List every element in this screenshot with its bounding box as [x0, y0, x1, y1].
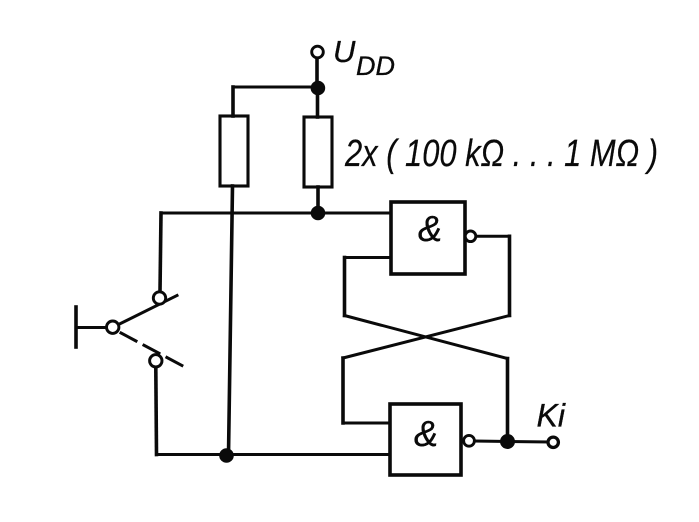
svg-text:&: & — [418, 208, 442, 249]
svg-text:2x ( 100 kΩ . . . 1 MΩ ): 2x ( 100 kΩ . . . 1 MΩ ) — [344, 133, 658, 175]
svg-text:U: U — [333, 34, 356, 69]
svg-text:&: & — [414, 413, 438, 454]
svg-text:Ki: Ki — [537, 398, 566, 434]
svg-text:DD: DD — [356, 51, 395, 81]
